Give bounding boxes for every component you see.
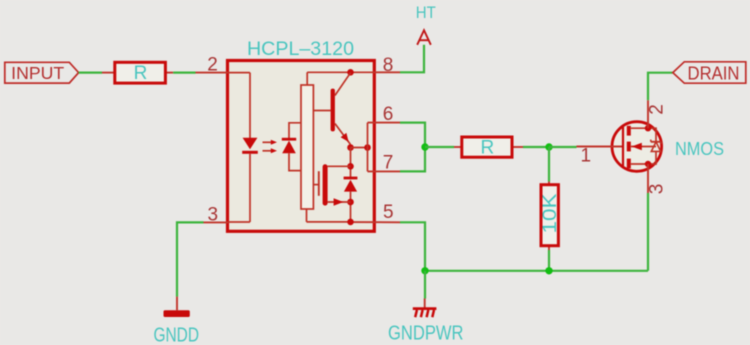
photodiode inside U1 (282, 123, 301, 171)
wire drain to DRAIN flag (648, 73, 673, 101)
svg-text:7: 7 (383, 153, 394, 174)
wire pin 3 to GNDD (177, 222, 204, 296)
resistor R2 (454, 137, 523, 158)
net label INPUT (5, 62, 79, 83)
svg-text:R: R (134, 63, 148, 84)
U1 internal bottom rail (307, 209, 351, 222)
U1 internal top rail to pin 8 (307, 71, 373, 73)
power symbol HT (416, 3, 436, 45)
wire gate node to Q1 (549, 146, 577, 148)
U1 pin 5 lead (351, 202, 401, 223)
wire output node to R2 (425, 146, 454, 148)
U1 pin 2 lead (196, 55, 229, 76)
svg-text:2: 2 (646, 104, 667, 115)
svg-text:5: 5 (383, 202, 394, 223)
svg-text:GNDPWR: GNDPWR (388, 323, 464, 345)
U1 pin 8 lead (374, 55, 401, 76)
wire gate node down to R3 (548, 147, 550, 182)
svg-text:2: 2 (207, 55, 218, 76)
U1 internal bus wire (350, 148, 352, 178)
svg-text:3: 3 (208, 205, 219, 226)
transistor (U1 output PMOS) (313, 164, 350, 205)
svg-text:R: R (481, 137, 495, 158)
diode inside U1 (344, 178, 358, 192)
junction (tie line) (364, 144, 371, 151)
wire pin 5 to ground rail (400, 222, 425, 270)
light arrows (263, 140, 278, 154)
wire source to ground rail (647, 193, 649, 271)
svg-text:3: 3 (646, 184, 667, 195)
wire R3 to ground rail (548, 250, 550, 271)
junction (PMOS source node) (347, 199, 354, 206)
transistor (U1 output NPN) (313, 73, 350, 148)
junction (bottom rail) (347, 219, 354, 226)
svg-text:10K: 10K (540, 193, 561, 233)
U1 pin 6 lead (368, 104, 401, 125)
ground GNDD (154, 297, 200, 345)
wire pins 6/7 bracket (400, 123, 425, 172)
wire pin 8 to HT (400, 45, 424, 73)
svg-text:NMOS: NMOS (675, 138, 724, 159)
LED inside U1 (242, 138, 258, 153)
U1 internal wire LED cathode to pin 3 (228, 154, 250, 222)
junction (emitter node) (347, 144, 354, 151)
svg-text:HT: HT (416, 3, 436, 22)
amplifier block inside U1 (301, 72, 313, 209)
ground GNDPWR (388, 299, 464, 345)
junction ground rail left (421, 267, 428, 274)
svg-text:8: 8 (383, 55, 394, 76)
wire INPUT to R1 (79, 71, 102, 73)
junction output node (421, 143, 428, 150)
U1 pin 3 lead (204, 205, 229, 226)
svg-text:HCPL–3120: HCPL–3120 (247, 39, 354, 60)
junction gate node (545, 143, 552, 150)
wire ground rail (425, 270, 648, 272)
svg-text:GNDD: GNDD (154, 325, 200, 345)
wire R2 to gate node (523, 146, 549, 148)
U1 pin 7 lead (368, 153, 401, 174)
net label DRAIN (673, 62, 746, 84)
svg-text:1: 1 (581, 146, 592, 167)
transistor Q1 NMOS (577, 100, 725, 193)
svg-text:DRAIN: DRAIN (688, 64, 740, 84)
junction (top rail) (347, 69, 354, 76)
U1 internal bus wire lower (350, 192, 352, 223)
U1 internal tie line pins 6-7 (367, 123, 369, 172)
wire ground rail to GNDPWR (424, 271, 426, 299)
U1 internal wire pin2 to LED (228, 73, 250, 138)
resistor R3 10K (540, 182, 561, 251)
U1 internal wire to pins 6/7 tie (351, 147, 368, 149)
junction (PMOS drain node) (347, 163, 354, 170)
resistor R1 (102, 62, 173, 84)
wire R1 to U1 pin 2 (173, 71, 195, 73)
svg-text:INPUT: INPUT (11, 63, 64, 83)
optocoupler U1 HCPL-3120 body (228, 39, 375, 232)
junction ground rail right (545, 267, 552, 274)
svg-text:6: 6 (383, 104, 394, 125)
